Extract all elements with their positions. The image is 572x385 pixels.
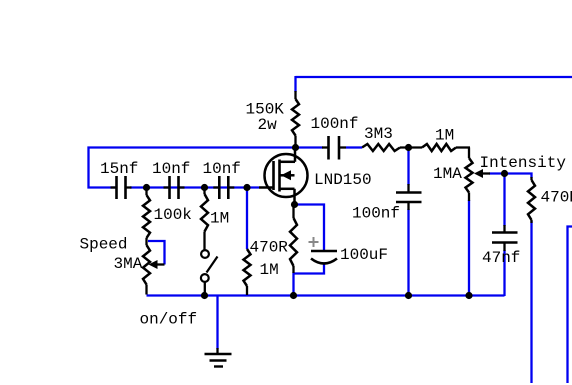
- speed wiper arrow: [157, 263, 165, 265]
- wire bottom ground rail: [147, 294, 505, 296]
- svg-text:470R: 470R: [541, 189, 572, 207]
- wire speed pot wiper tap: [148, 241, 165, 265]
- wire capacitor row: [130, 186, 259, 188]
- capacitor C3 10nf: [213, 186, 219, 188]
- node source-rail: [290, 292, 297, 299]
- capacitor C1 15nf: [111, 186, 117, 188]
- svg-text:470R: 470R: [250, 239, 289, 257]
- svg-text:2w: 2w: [258, 116, 278, 134]
- resistor R5 470R (source): [292, 206, 294, 218]
- wire 1M to intensity pot: [456, 146, 470, 148]
- wire gate node to 1M gate resistor: [246, 188, 248, 250]
- node cap2-1M junction: [201, 184, 208, 191]
- svg-text:3MA: 3MA: [114, 255, 143, 273]
- wire left feedback loop: [89, 148, 324, 188]
- transistor Q1 LND150 MOSFET: [259, 148, 308, 205]
- resistor R4 1M (gate leak): [244, 249, 251, 286]
- node intensity wiper: [501, 170, 508, 177]
- svg-text:1MA: 1MA: [433, 165, 462, 183]
- node switch-ground: [201, 292, 208, 299]
- svg-text:100k: 100k: [154, 206, 192, 224]
- node source: [291, 201, 298, 208]
- resistor R8 470R (right): [530, 177, 532, 180]
- switch SW1 on/off: [201, 250, 209, 258]
- wire 470R output down: [530, 221, 532, 383]
- wire 100nf shunt bottom: [407, 209, 409, 296]
- node gate: [243, 184, 250, 191]
- wire 47nf bottom riser: [503, 250, 505, 296]
- ground symbol: [216, 348, 218, 354]
- resistor R6 3M3: [362, 144, 400, 151]
- capacitor C7 100uF electrolytic: [311, 250, 337, 253]
- svg-text:100nf: 100nf: [311, 115, 359, 133]
- plus sign for 100uF: [309, 241, 319, 243]
- node 3M3-1M junction: [405, 144, 412, 151]
- svg-text:1M: 1M: [260, 261, 279, 279]
- svg-text:Intensity: Intensity: [480, 154, 567, 172]
- wire intensity wiper to 470R: [489, 174, 532, 179]
- svg-text:3M3: 3M3: [364, 125, 393, 143]
- capacitor C5 100nf (shunt, horizontal plates): [407, 184, 409, 193]
- potentiometer VR1 Speed 3MA: [143, 245, 150, 285]
- node intensity-rail: [465, 292, 472, 299]
- wire ground stem: [216, 296, 218, 350]
- svg-text:Speed: Speed: [80, 236, 128, 254]
- node cap1-100k junction: [143, 184, 150, 191]
- svg-text:LND150: LND150: [314, 171, 372, 189]
- node drain: [292, 144, 299, 151]
- wire intensity pot bottom: [468, 200, 470, 296]
- wire top supply rail: [296, 76, 572, 78]
- resistor R1 150K 2w: [294, 91, 296, 99]
- potentiometer VR2 Intensity 1MA: [468, 148, 470, 159]
- wire 100uF bottom loop: [294, 263, 325, 296]
- svg-text:100nf: 100nf: [352, 205, 400, 223]
- svg-text:1M: 1M: [435, 127, 454, 145]
- wire source node to 100uF loop: [295, 205, 324, 251]
- wire 150K top lead: [294, 76, 296, 92]
- intensity wiper arrow: [482, 172, 490, 174]
- svg-text:10nf: 10nf: [203, 160, 241, 178]
- svg-text:1M: 1M: [210, 210, 229, 228]
- resistor R3 1M (gate chain): [203, 189, 205, 194]
- wire 47nf top lead: [503, 174, 505, 227]
- svg-text:47nf: 47nf: [482, 249, 520, 267]
- wire 3M3 node to 1M: [400, 146, 422, 148]
- svg-text:on/off: on/off: [140, 311, 198, 329]
- capacitor C6 47nf: [503, 225, 505, 233]
- capacitor C4 100nf (series, top row): [322, 146, 329, 148]
- capacitor C2 10nf: [164, 186, 170, 188]
- wire right edge output: [568, 227, 572, 384]
- resistor R7 1M (top row): [422, 144, 456, 151]
- node 100nf-rail: [405, 292, 412, 299]
- svg-text:10nf: 10nf: [152, 160, 190, 178]
- svg-text:15nf: 15nf: [100, 160, 138, 178]
- svg-text:100uF: 100uF: [340, 246, 388, 264]
- wire 100nf shunt top: [407, 148, 409, 186]
- resistor R2 100k: [145, 189, 147, 195]
